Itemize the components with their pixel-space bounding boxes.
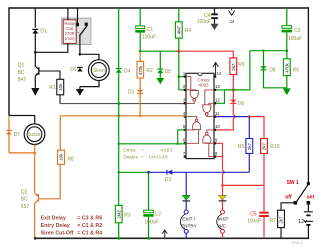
wire R2 to D2	[139, 78, 141, 90]
diode D8	[261, 51, 287, 88]
terminal exit/entry bottom	[184, 229, 188, 233]
ground C4	[210, 24, 218, 30]
junction pin11 node	[248, 115, 251, 118]
diode D5	[157, 69, 163, 73]
svg-text:D1: D1	[40, 29, 47, 35]
junction C2/blue bus	[147, 171, 150, 174]
wire C1 from top rail	[139, 8, 141, 26]
wire green column continues to R3	[118, 73, 120, 206]
svg-text:11: 11	[215, 111, 220, 116]
label timing note	[41, 215, 103, 236]
pin 5	[184, 129, 186, 131]
wire pin4 net corner down to R8	[59, 116, 61, 150]
wire LED to terminal	[185, 202, 187, 211]
wire Q1 base to R1	[40, 71, 61, 79]
wire R5 bottom to blue bus	[248, 154, 250, 173]
diode D2	[137, 90, 143, 94]
wire Q2 emitter	[34, 153, 36, 193]
wire R6 top	[286, 51, 288, 59]
transistor Q1	[35, 52, 39, 88]
junction buzzer bottom / Q2 emitter	[33, 152, 36, 155]
wire LED to inst terminal	[222, 202, 224, 211]
wire R7 to 0V	[280, 228, 282, 239]
node A junction D1/relay-coil/Q1-collector	[34, 51, 37, 54]
svg-text:Cmos: Cmos	[123, 148, 136, 153]
svg-text:R4: R4	[185, 28, 192, 34]
svg-text:D4: D4	[124, 68, 131, 74]
wire pin 11 blue	[216, 116, 249, 118]
siren SP1	[88, 60, 109, 81]
wire exit LED drop	[185, 172, 187, 195]
diode D9	[77, 68, 83, 72]
svg-text:off: off	[285, 195, 292, 201]
ground R6/D8	[283, 88, 291, 95]
wire latch node to pins 1,2	[178, 51, 180, 90]
junction C3/R6	[286, 49, 289, 52]
wire R3 to 0V rail	[118, 223, 120, 239]
svg-text:100nF: 100nF	[247, 219, 261, 225]
wire buzzer bottom	[9, 145, 35, 153]
svg-text:R2: R2	[146, 68, 153, 74]
resistor R1	[57, 79, 64, 95]
svg-text:Entry Delay: Entry Delay	[41, 223, 70, 229]
wire alarm-out horizontal	[223, 184, 265, 186]
wire D1 to node A	[34, 34, 36, 53]
relay coil box	[63, 20, 76, 44]
wire buzzer top from +12	[9, 116, 35, 124]
diode D6	[230, 100, 236, 104]
ground siren	[76, 89, 84, 96]
resistor R6	[283, 59, 290, 76]
svg-text:ENTRY: ENTRY	[181, 224, 197, 229]
wire exit-delay node horizontal	[250, 50, 287, 52]
svg-text:Q1: Q1	[18, 63, 25, 69]
svg-text:Buzzer: Buzzer	[27, 132, 43, 138]
capacitor C5	[259, 212, 269, 239]
wire C1 bottom to latch node	[139, 33, 141, 52]
wire +12V left rail	[8, 7, 10, 115]
pin 14	[214, 76, 216, 78]
terminal inst bottom	[221, 229, 225, 233]
wire D7 to buzzer bottom	[8, 135, 10, 153]
wire pin3 net	[60, 103, 186, 105]
label note Cmos	[123, 148, 173, 160]
junction R9/pins12-13	[232, 88, 235, 91]
junction latch node red dot	[177, 50, 180, 53]
svg-text:2k7: 2k7	[279, 216, 284, 224]
svg-text:RonJ: RonJ	[292, 240, 304, 246]
capacitor C2	[143, 210, 153, 238]
wire D9 to ground	[79, 87, 81, 89]
pin 9	[214, 142, 216, 144]
capacitor C3	[282, 8, 292, 51]
resistor R3	[115, 205, 122, 223]
wire pins 8,9 tie	[216, 143, 224, 185]
capacitor C1	[135, 26, 145, 33]
wire D6 to pin 10 with hop	[216, 103, 235, 129]
svg-text:R8: R8	[67, 156, 74, 162]
svg-text:=: =	[141, 154, 144, 159]
svg-text:= C3 & R6: = C3 & R6	[77, 215, 102, 221]
battery B1 12v	[304, 212, 313, 225]
svg-text:=: =	[141, 148, 144, 153]
transistor Q2	[35, 193, 39, 238]
svg-text:13: 13	[215, 84, 220, 89]
svg-text:Exit Delay: Exit Delay	[41, 215, 66, 221]
IC U1 4093 body	[186, 73, 214, 158]
pin 14 supply up-arrow	[213, 63, 219, 76]
wire relay contact feed from +12 rail	[77, 8, 79, 23]
op-amp gate G3 pins 5,6 to 4	[186, 117, 201, 144]
svg-text:12: 12	[215, 98, 220, 103]
wire blue bus	[149, 171, 250, 173]
svg-text:470k: 470k	[138, 65, 143, 75]
switch SW1 arm	[297, 184, 309, 202]
pin 12	[214, 102, 216, 104]
relay contact NO	[85, 23, 88, 26]
ground Q1 emitter	[31, 88, 39, 96]
svg-text:D2: D2	[128, 89, 135, 95]
loop arc inst	[217, 214, 222, 229]
label Q2	[21, 190, 30, 210]
wire R4 from top rail	[178, 8, 180, 22]
wire battery to 0V	[307, 225, 309, 238]
wire pin5 link	[178, 130, 186, 144]
junction green/pin3	[117, 102, 120, 105]
svg-text:N/C: N/C	[218, 224, 227, 229]
wire R9 bottom	[232, 75, 234, 100]
svg-text:547: 547	[18, 77, 27, 83]
wire D1 branch from top rail	[34, 8, 36, 28]
wire +12V top rail	[9, 7, 308, 9]
svg-text:C3: C3	[294, 28, 301, 34]
resistor R10	[261, 139, 268, 154]
wire inst terminal to 0V	[222, 233, 224, 238]
svg-text:EXIT /: EXIT /	[182, 217, 195, 222]
label INST N/C	[218, 217, 229, 229]
svg-text:100uF: 100uF	[144, 219, 158, 225]
pin 10	[214, 129, 216, 131]
switch SW1 pivot	[307, 182, 310, 185]
pin 4	[184, 116, 186, 118]
capacitor C4	[211, 8, 218, 24]
svg-text:100uF: 100uF	[142, 35, 156, 41]
supply arrow to pin 14	[229, 8, 235, 15]
resistor R4	[175, 22, 182, 38]
svg-text:SW 1: SW 1	[287, 180, 299, 186]
svg-text:4093: 4093	[198, 83, 209, 88]
junction R3/0V	[117, 237, 120, 240]
svg-text:470k: 470k	[284, 62, 289, 72]
label EXIT/ENTRY	[181, 217, 197, 229]
wire latch node horizontal	[140, 50, 179, 52]
diode D3	[167, 170, 172, 175]
junction green/blue bus	[118, 171, 120, 173]
svg-text:D9: D9	[70, 67, 77, 73]
svg-text:R5: R5	[238, 144, 245, 150]
diode D4	[116, 69, 122, 73]
svg-text:14: 14	[230, 19, 235, 24]
junction pin5/pin6	[177, 143, 179, 145]
svg-text:2M2: 2M2	[116, 210, 121, 219]
wire D5 to ground	[159, 73, 161, 78]
wire C2 column	[148, 172, 150, 210]
wire pin11 node to R5	[248, 117, 250, 139]
wire green to blue bus	[119, 171, 149, 173]
op-amp gate G4 pins 8,9 to 10	[203, 130, 214, 157]
relay body	[62, 18, 91, 44]
junction pin1	[178, 75, 181, 78]
buzzer BZ1	[24, 124, 45, 145]
LED inst yellow	[219, 195, 227, 201]
svg-text:Siren Cut-Off: Siren Cut-Off	[41, 230, 74, 236]
wire siren bottom lead	[80, 81, 99, 87]
wire pins 12,13 tie	[216, 90, 224, 103]
svg-text:C1: C1	[147, 27, 154, 33]
svg-text:(min): (min)	[65, 36, 75, 41]
op-amp gate G2 pins 12,13 to 11	[203, 90, 214, 117]
svg-text:10: 10	[215, 124, 220, 129]
wire terminal to 0V	[185, 233, 187, 238]
pin 3	[184, 102, 186, 104]
resistor R8	[58, 150, 65, 164]
svg-text:2k7: 2k7	[231, 63, 236, 71]
junction C2/0V	[147, 237, 150, 240]
wire set contact to battery	[307, 205, 309, 212]
wire pin1 stub	[179, 76, 186, 78]
junction D8 top	[262, 50, 264, 52]
junction latch node C1/R2	[139, 50, 142, 53]
loop arc exit/entry	[180, 214, 185, 229]
label Cmos 4093	[197, 77, 210, 87]
svg-text:R10: R10	[270, 144, 279, 150]
wire pin2 stub	[179, 89, 186, 91]
wire R6 bottom	[286, 76, 288, 89]
svg-text:100uF: 100uF	[288, 36, 302, 42]
wire relay common down to siren node	[79, 35, 81, 54]
junction green/pin4	[117, 114, 120, 117]
wire inst LED drop	[222, 185, 224, 195]
svg-text:Q2: Q2	[21, 190, 28, 196]
pin 13	[214, 89, 216, 91]
pin 7	[184, 156, 186, 158]
pin 11	[214, 116, 216, 118]
label Q1	[18, 63, 27, 83]
wire pin11 node to R10	[249, 117, 264, 139]
pin 6	[184, 142, 186, 144]
svg-text:D7: D7	[14, 132, 21, 138]
pin 1	[184, 76, 186, 78]
svg-text:R1: R1	[49, 85, 56, 91]
svg-text:10k: 10k	[58, 83, 63, 91]
wire red latch bus	[179, 51, 234, 58]
svg-text:C5: C5	[250, 212, 257, 218]
resistor R7	[278, 210, 285, 227]
junction D2/pin4 net	[139, 115, 142, 118]
wire R1 bottom	[59, 95, 61, 104]
wire C5 feed	[263, 185, 265, 211]
wire R8 bottom to Q2 base	[39, 164, 60, 198]
svg-text:BC: BC	[18, 70, 25, 76]
wire 0V bottom rail	[35, 237, 309, 239]
resistor R9	[230, 58, 237, 75]
svg-text:R3: R3	[124, 212, 131, 218]
LED exit green	[182, 195, 190, 201]
svg-text:BC: BC	[21, 197, 28, 203]
wire D7 branch	[8, 116, 10, 131]
wire siren top lead	[80, 54, 99, 59]
svg-text:D8: D8	[269, 67, 276, 73]
wire D5 branch	[159, 51, 161, 69]
resistor R5	[246, 139, 253, 154]
node siren top junction	[79, 53, 82, 56]
label relay coil value	[64, 21, 76, 41]
diode D7	[6, 131, 12, 135]
ground D5	[156, 78, 164, 85]
wire relay coil bottom to node A	[35, 43, 68, 52]
wire +12V right feed to SW1	[307, 7, 309, 183]
svg-text:12v: 12v	[298, 219, 307, 225]
svg-text:= C1 & R4: = C1 & R4	[77, 230, 102, 236]
wire exit node down-left to pins 12,13	[224, 51, 250, 90]
switch contact set	[307, 201, 311, 205]
terminal inst top	[221, 210, 225, 214]
wire green supply column from top rail	[118, 8, 120, 69]
wire R4 bottom to latch node	[178, 38, 180, 51]
pin 2	[184, 89, 186, 91]
switch contact off	[294, 201, 298, 205]
resistor R2	[137, 61, 144, 78]
pin 8	[214, 156, 216, 158]
svg-text:D3: D3	[165, 177, 172, 183]
op-amp gate G1 pins 1,2 to 3	[186, 77, 198, 104]
svg-text:2k7: 2k7	[247, 143, 252, 151]
wire pins 5,6 green net	[119, 143, 186, 145]
ground 0V marker arrow	[162, 230, 167, 238]
relay armature arm	[80, 26, 87, 36]
svg-text:R6: R6	[293, 67, 300, 73]
wire D2 to pin4 net	[139, 94, 141, 116]
wire R10 bottom	[263, 154, 265, 186]
svg-text:10k: 10k	[59, 153, 64, 161]
wire relay coil top to +12 rail	[67, 8, 69, 20]
junction Q2 collector / 0V	[34, 237, 37, 240]
wire off contact to R7	[281, 203, 294, 210]
terminal exit/entry top	[184, 210, 188, 214]
svg-text:D5: D5	[165, 69, 172, 75]
wire R2 top	[139, 51, 141, 61]
svg-text:557: 557	[21, 204, 30, 210]
svg-text:100nF: 100nF	[197, 19, 211, 25]
diode D1	[32, 29, 38, 33]
svg-text:Diodes: Diodes	[123, 154, 138, 159]
svg-text:Siren: Siren	[93, 68, 105, 74]
svg-text:4093: 4093	[160, 148, 173, 153]
relay armature link	[76, 32, 79, 34]
svg-text:INST: INST	[218, 217, 229, 222]
svg-text:set: set	[307, 195, 315, 201]
svg-text:4M7: 4M7	[176, 25, 181, 34]
svg-text:C2: C2	[155, 212, 162, 218]
svg-text:1N4148: 1N4148	[148, 154, 168, 159]
svg-text:14: 14	[217, 71, 222, 76]
junction alarm-out	[221, 184, 224, 187]
svg-text:R9: R9	[238, 62, 245, 68]
svg-text:= C1 & R2: = C1 & R2	[77, 223, 102, 229]
relay contact NC	[76, 23, 79, 26]
svg-text:R7: R7	[270, 218, 277, 224]
svg-text:2k7: 2k7	[262, 143, 267, 151]
svg-text:D6: D6	[238, 101, 245, 107]
junction green/pin56	[118, 143, 120, 145]
wire pin4 orange net	[60, 115, 186, 117]
